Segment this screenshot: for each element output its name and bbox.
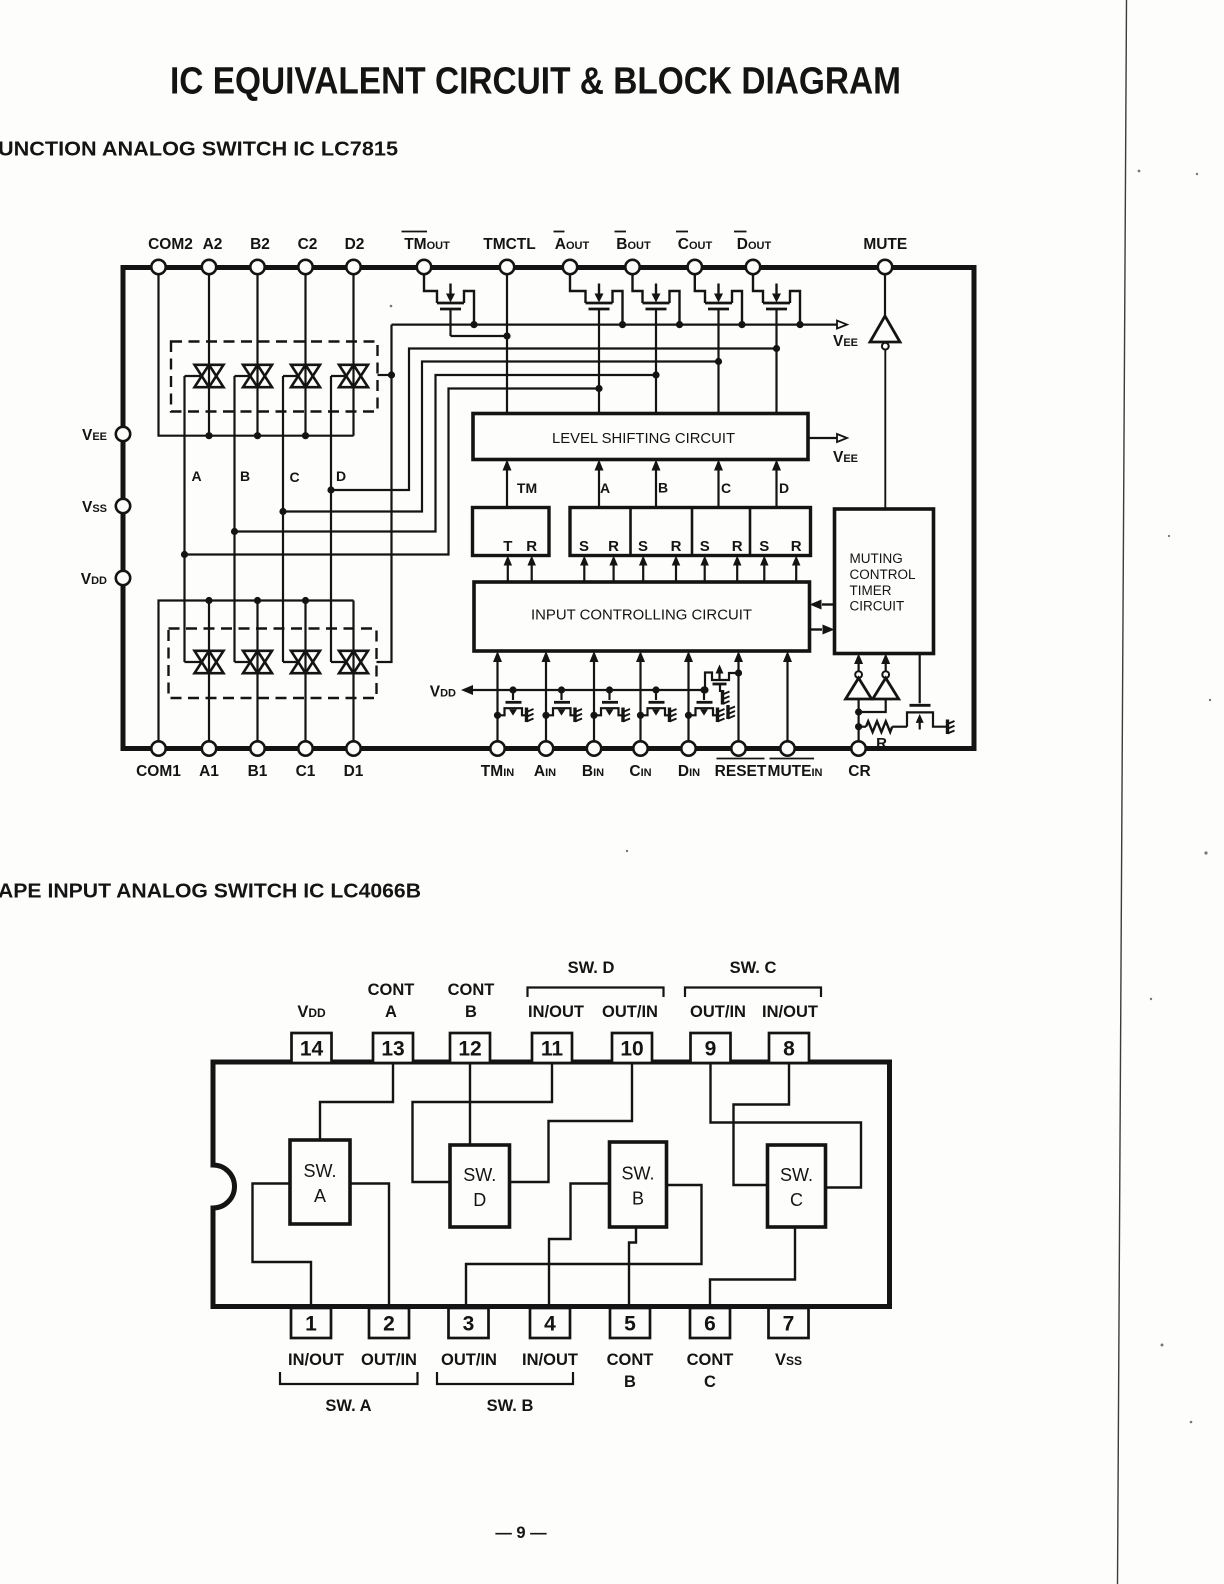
junction VEE substrate upper group [388, 371, 395, 378]
arrowhead Cin [636, 651, 645, 662]
RESET clamp transistor cluster [735, 669, 742, 676]
svg-text:6: 6 [704, 1313, 716, 1336]
pin B1 (bottom) [250, 741, 264, 755]
overline A [554, 231, 565, 233]
analog switch S-A1 [195, 651, 224, 673]
dashed box: output switch group [171, 342, 378, 412]
wire pin1 to SW.A left [253, 1184, 312, 1309]
pin VDD (left) [116, 571, 130, 585]
pin CR (bottom) [851, 741, 865, 755]
svg-text:SW.: SW. [780, 1165, 813, 1185]
svg-text:C1: C1 [296, 763, 316, 780]
svg-text:S: S [759, 538, 769, 555]
svg-text:B: B [240, 468, 250, 484]
svg-text:IN/OUT: IN/OUT [762, 1003, 818, 1021]
wire pin Din to input controller [687, 654, 689, 741]
transistor Q-CR (timer) [919, 654, 921, 704]
svg-text:SW.: SW. [463, 1165, 496, 1185]
pin RESET (bottom) [731, 741, 745, 755]
svg-text:2: 2 [383, 1313, 395, 1336]
wire COM1 to lower switch bus (node COM1) [159, 601, 354, 742]
wire pin5 CONT B to SW.B [629, 1227, 636, 1308]
wire Q-B bulk to level shifter [655, 309, 657, 414]
VDD arrowhead [461, 685, 473, 695]
svg-text:5: 5 [624, 1313, 636, 1336]
pin COM2 (top) [151, 260, 165, 274]
wire pin D2 through switch to COM2 bus [352, 275, 354, 436]
clamp gate bar [713, 683, 727, 686]
svg-text:T: T [503, 538, 512, 555]
block S-R latch row [570, 508, 811, 556]
wire pin3 to SW.B right [466, 1185, 702, 1308]
block MUTING CONTROL TIMER CIRCUIT [835, 509, 934, 654]
svg-text:C: C [289, 469, 299, 485]
svg-text:A: A [314, 1186, 326, 1206]
arrowhead MUTEin [783, 651, 792, 662]
svg-text:10: 10 [620, 1038, 643, 1061]
transistor Q-D (Dout driver) [753, 275, 800, 325]
svg-text:A1: A1 [199, 763, 219, 780]
schmitt inverter U3 [885, 657, 887, 672]
svg-text:8: 8 [783, 1038, 795, 1061]
svg-text:APE INPUT ANALOG SWITCH IC LC4: APE INPUT ANALOG SWITCH IC LC4066B [0, 880, 421, 903]
svg-text:14: 14 [300, 1038, 324, 1061]
block LEVEL SHIFTING CIRCUIT [473, 414, 808, 460]
svg-text:13: 13 [381, 1038, 404, 1061]
arrowhead Bin [590, 651, 599, 662]
scan specks [1138, 170, 1141, 173]
wire pin Bin to input controller [593, 654, 595, 741]
pin box 10 (top) [612, 1033, 652, 1063]
svg-text:OUT/IN: OUT/IN [361, 1351, 417, 1369]
transistor Q-TM (TMout driver) [424, 275, 474, 325]
svg-text:D2: D2 [345, 236, 365, 253]
wire COM2 to switch bus (node COM2) [159, 275, 354, 436]
bracket SW. B [437, 1372, 573, 1384]
svg-text:R: R [876, 735, 887, 752]
substrate hatch 2 [728, 705, 735, 719]
overline C [676, 231, 688, 233]
wire bus through switch to pin D1 [352, 601, 354, 742]
arrow input controller to muting block [810, 628, 823, 630]
gate stub switch S-B1 [235, 661, 252, 663]
transistor Q-B (Bout driver) [633, 275, 680, 325]
block T-R latch [473, 508, 550, 556]
block SW. A [290, 1140, 350, 1224]
wire bus through switch to pin C1 [304, 601, 306, 742]
node B link to Bout driver [231, 528, 238, 535]
arrowhead TMin [493, 651, 502, 662]
svg-text:MUTE: MUTE [863, 236, 907, 253]
arrowhead Din [684, 651, 693, 662]
pin box 3 (bottom) [449, 1308, 489, 1338]
pin BOUT (top) [625, 260, 639, 274]
analog switch S-B1 [243, 651, 272, 673]
svg-text:CIRCUIT: CIRCUIT [850, 599, 905, 614]
wire B latch to level shifter [655, 462, 657, 508]
wire CR node [857, 699, 859, 741]
pin COUT (top) [688, 260, 702, 274]
gate stub switch S-D2 [331, 375, 348, 377]
svg-text:LEVEL SHIFTING CIRCUIT: LEVEL SHIFTING CIRCUIT [552, 430, 735, 447]
wire TM latch to level shifter [506, 462, 508, 508]
svg-text:S: S [638, 538, 648, 555]
pin box 13 (top) [373, 1033, 413, 1063]
svg-text:C2: C2 [298, 236, 318, 253]
VEE output of level shifter [808, 437, 837, 439]
VDD distribution line [466, 689, 705, 691]
wire pin Ain to input controller [545, 654, 547, 741]
pin A1 (bottom) [202, 741, 216, 755]
pin DIN (bottom) [681, 741, 695, 755]
wire Q-TM bulk to TMCTL node [451, 335, 508, 337]
wire pin Cin to input controller [639, 654, 641, 741]
junction on COM1 bus [254, 597, 261, 604]
analog switch S-D1 [339, 651, 368, 673]
svg-text:R: R [526, 538, 537, 555]
svg-text:D: D [779, 480, 789, 496]
pin TMIN (bottom) [490, 741, 504, 755]
svg-text:RESET: RESET [715, 763, 767, 780]
svg-text:SW.: SW. [303, 1161, 336, 1181]
analog switch S-A2 [195, 365, 224, 387]
wire TMCTL into level shifter [506, 275, 508, 414]
VEE rail drop to switch-group substrate [377, 325, 392, 662]
svg-text:D: D [473, 1190, 486, 1210]
svg-text:SW. D: SW. D [568, 959, 615, 977]
pin C1 (bottom) [298, 741, 312, 755]
svg-text:IN/OUT: IN/OUT [522, 1351, 578, 1369]
svg-text:— 9 —: — 9 — [495, 1524, 547, 1542]
svg-text:C: C [704, 1373, 716, 1391]
svg-text:B2: B2 [250, 236, 270, 253]
svg-text:S: S [700, 538, 710, 555]
svg-text:1: 1 [305, 1313, 317, 1336]
wire Q-C bulk to level shifter [717, 309, 719, 414]
svg-text:COM2: COM2 [148, 236, 193, 253]
svg-text:R: R [791, 538, 802, 555]
arrow muting block to input controller [822, 603, 835, 605]
IC LC7815 boundary box [123, 268, 974, 749]
wire pin9 to SW.C right [711, 1063, 862, 1188]
gate stub switch S-A1 [185, 661, 204, 663]
pin B2 (top) [250, 260, 264, 274]
svg-text:CONT: CONT [368, 981, 415, 999]
arrowhead TM into level shifter [503, 460, 512, 471]
svg-text:CR: CR [848, 763, 870, 780]
pin D1 (bottom) [346, 741, 360, 755]
svg-text:TMCTL: TMCTL [483, 236, 536, 253]
svg-text:IN/OUT: IN/OUT [288, 1351, 344, 1369]
arrows input controller to latches [507, 559, 509, 583]
block INPUT CONTROLLING CIRCUIT [474, 582, 810, 651]
svg-text:R: R [608, 538, 619, 555]
arrowhead C into level shifter [714, 460, 723, 471]
pin COM1 (bottom) [151, 741, 165, 755]
svg-text:D: D [336, 468, 346, 484]
pin C2 (top) [298, 260, 312, 274]
bracket SW. C [685, 988, 821, 998]
page fold line [1118, 0, 1127, 1584]
gate stub switch S-A2 [185, 375, 204, 377]
wire pin B2 through switch to COM2 bus [256, 275, 258, 436]
pin BIN (bottom) [587, 741, 601, 755]
transistor Q-A (Aout driver) [570, 275, 623, 325]
VEE rail arrowhead [837, 321, 847, 329]
wire pin4 to SW.B left [549, 1184, 610, 1309]
pin box 14 (top) [292, 1033, 332, 1063]
input protection cell TMin [494, 686, 527, 719]
svg-text:3: 3 [463, 1313, 475, 1336]
input protection cell Cin [637, 686, 670, 719]
wire Q-TM bulk down [449, 309, 451, 336]
analog switch S-D2 [339, 365, 368, 387]
svg-text:INPUT CONTROLLING CIRCUIT: INPUT CONTROLLING CIRCUIT [531, 607, 752, 624]
bracket SW. D [528, 988, 664, 998]
overline RESET [717, 758, 765, 760]
wire MUTE pin to inverter U1 [884, 275, 886, 318]
pin MUTE (top) [878, 260, 892, 274]
input protection cell Bin [590, 686, 623, 719]
pin box 1 (bottom) [291, 1308, 331, 1338]
svg-text:SW.: SW. [621, 1164, 654, 1184]
overline D [734, 231, 747, 233]
wire pin C2 through switch to COM2 bus [304, 275, 306, 436]
svg-text:7: 7 [783, 1313, 795, 1336]
svg-text:B: B [624, 1373, 636, 1391]
svg-text:CONT: CONT [687, 1351, 734, 1369]
junction on COM1 bus [302, 597, 309, 604]
wire pin6 CONT C to SW.C [710, 1227, 795, 1308]
block SW. B [610, 1142, 667, 1227]
svg-text:TIMER: TIMER [850, 583, 892, 598]
svg-text:CONTROL: CONTROL [850, 567, 916, 582]
junction VDD line end [701, 686, 708, 693]
clamp arrow shaft [718, 671, 720, 681]
pin AOUT (top) [563, 260, 577, 274]
wire D latch to level shifter [775, 462, 777, 508]
svg-text:VDD: VDD [297, 1003, 326, 1021]
pin MUTEIN (bottom) [780, 741, 794, 755]
transistor Q-C (Cout driver) [695, 275, 742, 325]
pin A2 (top) [202, 260, 216, 274]
svg-text:A: A [191, 468, 201, 484]
input protection cell Ain [542, 686, 575, 719]
junction on COM2 bus [205, 432, 212, 439]
inverter U1 (MUTE) [870, 316, 900, 342]
junction on COM2 bus [254, 432, 261, 439]
svg-text:COM1: COM1 [136, 763, 181, 780]
clamp substrate stub [719, 684, 721, 692]
pin box 4 (bottom) [530, 1308, 570, 1338]
input protection cell Din [685, 686, 718, 719]
svg-text:4: 4 [544, 1313, 556, 1336]
block SW. D [450, 1145, 510, 1227]
pin VSS (left) [116, 499, 130, 513]
wire pin10 to SW.D right [510, 1063, 633, 1182]
svg-text:A: A [385, 1003, 397, 1021]
substrate stub upper dashed box [378, 374, 392, 376]
pin DOUT (top) [746, 260, 760, 274]
svg-text:B: B [465, 1003, 477, 1021]
control line C (vertical) [282, 376, 284, 662]
node C link to Cout driver [279, 508, 286, 515]
wire pin13 CONT A to SW.A [320, 1063, 393, 1140]
node D link to Dout driver [327, 486, 334, 493]
wire pin RESET to input controller [737, 654, 739, 741]
svg-text:OUT/IN: OUT/IN [602, 1003, 658, 1021]
substrate hatch 1 [723, 690, 730, 705]
pin box 11 (top) [532, 1033, 572, 1063]
pin box 7 (bottom) [769, 1308, 809, 1338]
control line D (vertical) [330, 376, 332, 662]
svg-text:CONT: CONT [448, 981, 495, 999]
analog switch S-C1 [291, 651, 320, 673]
node A link to Aout driver [181, 551, 188, 558]
VEE rail [392, 324, 838, 326]
wire pin11 to SW.D left [413, 1063, 553, 1182]
svg-text:12: 12 [458, 1038, 481, 1061]
dashed box: input switch group [169, 629, 377, 699]
clamp arrowhead [716, 665, 724, 674]
svg-text:9: 9 [705, 1038, 717, 1061]
pin CIN (bottom) [633, 741, 647, 755]
analog switch S-C2 [291, 365, 320, 387]
arrowhead B into level shifter [652, 460, 661, 471]
pin box 8 (top) [769, 1033, 809, 1063]
gate stub switch S-D1 [331, 661, 348, 663]
svg-text:11: 11 [541, 1038, 564, 1061]
svg-text:OUT/IN: OUT/IN [441, 1351, 497, 1369]
overline B [615, 231, 627, 233]
overline MUTE [770, 758, 815, 760]
divider S-R cell C/D [749, 508, 752, 556]
junction TMCTL [503, 332, 510, 339]
svg-text:SW. B: SW. B [487, 1397, 534, 1415]
svg-text:MUTING: MUTING [850, 551, 903, 566]
wire bus through switch to pin A1 [208, 601, 210, 742]
junction on COM1 bus [205, 597, 212, 604]
wire pin MUTEin to input controller [786, 654, 788, 741]
pin D2 (top) [346, 260, 360, 274]
svg-text:R: R [732, 538, 743, 555]
svg-text:C: C [790, 1190, 803, 1210]
resistor R [859, 726, 866, 728]
svg-text:B: B [658, 480, 668, 496]
junction on COM2 bus [302, 432, 309, 439]
block SW. C [768, 1145, 826, 1227]
wire C latch to level shifter [717, 462, 719, 508]
arrowhead A into level shifter [595, 460, 604, 471]
svg-text:R: R [671, 538, 682, 555]
svg-text:IN/OUT: IN/OUT [528, 1003, 584, 1021]
wire pin2 to SW.A right [350, 1184, 389, 1309]
svg-text:B: B [632, 1189, 644, 1209]
pin VEE (left) [116, 427, 130, 441]
svg-text:UNCTION ANALOG SWITCH IC LC781: UNCTION ANALOG SWITCH IC LC7815 [0, 138, 398, 161]
analog switch S-B2 [243, 365, 272, 387]
IC LC4066B body [213, 1062, 890, 1307]
pin AIN (bottom) [539, 741, 553, 755]
svg-text:A2: A2 [203, 236, 223, 253]
wire inverter U1 to muting block [884, 350, 886, 509]
wire Q-A bulk to level shifter [598, 309, 600, 414]
arrowhead D into level shifter [772, 460, 781, 471]
pin TMCTL (top) [500, 260, 514, 274]
svg-text:A: A [600, 480, 610, 496]
pin box 6 (bottom) [690, 1308, 730, 1338]
svg-text:TM: TM [517, 480, 537, 496]
pin box 2 (bottom) [369, 1308, 409, 1338]
wire U3 to CR node [859, 699, 886, 712]
svg-text:B1: B1 [248, 763, 268, 780]
wire pin12 CONT B to SW.D [469, 1063, 471, 1145]
wire Q-D bulk to level shifter [775, 309, 777, 414]
svg-text:IC EQUIVALENT CIRCUIT & BLOCK: IC EQUIVALENT CIRCUIT & BLOCK DIAGRAM [170, 61, 901, 103]
gate stub switch S-C2 [283, 375, 300, 377]
pin TMOUT (top) [417, 260, 431, 274]
bracket SW. A [280, 1372, 418, 1384]
schmitt inverter U2 [857, 657, 859, 672]
gate stub switch S-B2 [235, 375, 252, 377]
svg-text:C: C [721, 480, 731, 496]
svg-text:OUT/IN: OUT/IN [690, 1003, 746, 1021]
svg-text:S: S [579, 538, 589, 555]
wire bus through switch to pin B1 [256, 601, 258, 742]
wire A latch to level shifter [598, 462, 600, 508]
wire pin A2 through switch to COM2 bus [208, 275, 210, 436]
arrowhead Ain [542, 651, 551, 662]
wire pin TMin to input controller [496, 654, 498, 741]
svg-text:CONT: CONT [607, 1351, 654, 1369]
pin box 12 (top) [450, 1033, 490, 1063]
overline TM [402, 231, 428, 233]
pin box 5 (bottom) [610, 1308, 650, 1338]
divider S-R cell A/B [629, 508, 632, 556]
control line B (vertical) [233, 376, 235, 662]
svg-text:VSS: VSS [775, 1351, 802, 1369]
control line A (vertical) [183, 376, 185, 662]
pin box 9 (top) [691, 1033, 731, 1063]
wire pin8 to SW.C left [734, 1063, 790, 1185]
svg-text:SW. C: SW. C [730, 959, 777, 977]
arrowhead RESET [734, 651, 743, 662]
divider S-R cell B/C [691, 508, 694, 556]
svg-text:D1: D1 [344, 763, 364, 780]
svg-text:SW. A: SW. A [325, 1397, 371, 1415]
gate stub switch S-C1 [283, 661, 300, 663]
